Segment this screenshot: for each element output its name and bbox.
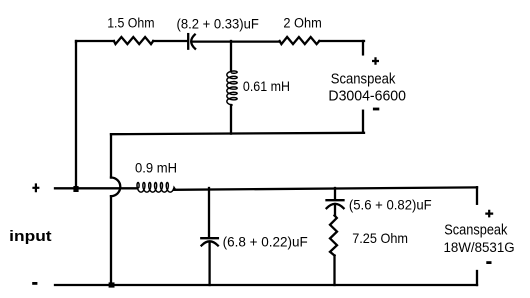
wire: RC branch lower stub xyxy=(333,256,335,286)
wire: tweeter right vertical lower stub xyxy=(362,111,364,133)
wire: left vertical from top rail down to + rail xyxy=(75,41,77,188)
wire: woofer right vertical upper stub xyxy=(476,187,478,204)
wire: RC branch middle stub xyxy=(334,204,336,216)
capacitor (6.8+0.22)uF curved plate xyxy=(202,241,218,245)
input - terminal xyxy=(32,282,37,285)
svg-text:input: input xyxy=(9,228,51,245)
capacitor (5.6+0.82)uF curved plate xyxy=(327,204,344,208)
inductor L 0.61 mH coil xyxy=(227,71,237,105)
wire: vertical from tweeter return down to hop xyxy=(110,134,112,177)
wire: tweeter bottom return rail xyxy=(111,133,364,134)
wire: woofer right vertical lower stub xyxy=(476,271,478,285)
tweeter + terminal xyxy=(372,57,379,65)
capacitor (8.2+0.33)uF curved plate xyxy=(191,35,195,49)
wire: + rail from coil to right corner xyxy=(174,187,477,189)
resistor R 2 Ohm xyxy=(280,37,320,44)
wire: + rail left segment xyxy=(55,187,138,189)
resistor R 1.5 Ohm xyxy=(114,37,153,44)
svg-text:1.5 Ohm: 1.5 Ohm xyxy=(107,16,154,31)
woofer - terminal xyxy=(486,261,491,264)
tweeter - terminal xyxy=(373,108,379,111)
wire: top rail right segment to corner xyxy=(319,40,364,42)
wire hop over + rail xyxy=(111,178,120,197)
wire: inductor branch upper stub xyxy=(230,41,232,72)
wire: vertical from hop down to - rail xyxy=(110,196,112,285)
svg-text:0.9 mH: 0.9 mH xyxy=(135,160,177,175)
svg-text:D3004-6600: D3004-6600 xyxy=(328,89,406,105)
junction dot at + rail / left vertical xyxy=(73,186,78,192)
wire: shunt cap branch lower stub xyxy=(208,242,210,285)
wire: top rail from capacitor to 2 Ohm xyxy=(192,40,280,42)
capacitor (5.6+0.82)uF flat plate xyxy=(327,199,344,201)
capacitor (6.8+0.22)uF flat plate xyxy=(201,237,218,239)
svg-text:(8.2 + 0.33)uF: (8.2 + 0.33)uF xyxy=(177,17,259,32)
svg-text:2 Ohm: 2 Ohm xyxy=(283,16,321,31)
woofer + terminal xyxy=(485,210,493,218)
wire: tweeter right vertical upper stub xyxy=(362,41,364,54)
resistor R 7.25 Ohm xyxy=(330,216,337,256)
svg-text:18W/8531G: 18W/8531G xyxy=(444,240,515,256)
wire: top rail left segment xyxy=(76,41,114,42)
svg-text:0.61 mH: 0.61 mH xyxy=(243,79,290,94)
capacitor (8.2+0.33)uF flat plate xyxy=(187,34,189,49)
wire: RC branch upper stub xyxy=(334,188,336,200)
input + terminal xyxy=(32,183,39,192)
wire: inductor branch lower stub xyxy=(230,105,232,134)
inductor L 0.9 mH coil xyxy=(137,183,176,193)
wire: top rail between R1.5 and capacitor xyxy=(153,40,187,42)
wire: shunt cap branch upper stub xyxy=(208,188,210,238)
svg-text:Scanspeak: Scanspeak xyxy=(331,71,396,87)
svg-text:(6.8 + 0.22)uF: (6.8 + 0.22)uF xyxy=(223,233,308,249)
junction dot at - rail xyxy=(109,282,115,287)
wire: - rail xyxy=(55,284,477,286)
svg-text:7.25 Ohm: 7.25 Ohm xyxy=(352,231,408,246)
svg-text:Scanspeak: Scanspeak xyxy=(444,222,508,238)
svg-text:(5.6 + 0.82)uF: (5.6 + 0.82)uF xyxy=(349,197,432,213)
